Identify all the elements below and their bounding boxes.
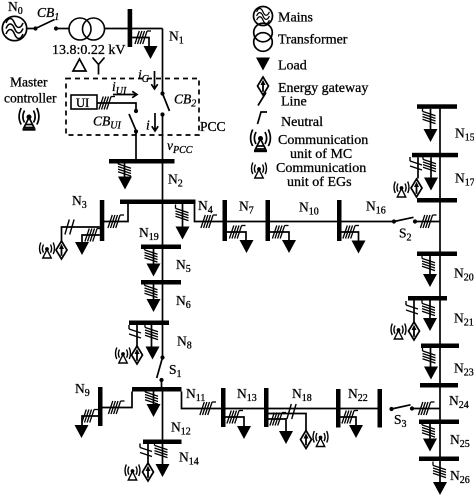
load branch wire under N19 bus	[153, 249, 155, 264]
load under PCC bus	[118, 177, 132, 190]
load branch wire at N1	[132, 38, 149, 47]
line/neutral marker	[342, 411, 358, 424]
wire	[342, 221, 395, 223]
load at N1	[144, 46, 158, 59]
load at N21	[423, 318, 437, 331]
svg-text:N4: N4	[198, 198, 213, 216]
legend label Communication unit of EGs	[276, 161, 366, 190]
marker on UI output	[99, 97, 115, 110]
bus above N17	[412, 153, 458, 158]
load at N18	[279, 431, 293, 444]
load branch wire at N9	[82, 416, 98, 425]
svg-text:Communication: Communication	[278, 133, 368, 148]
wire	[162, 115, 164, 160]
line/neutral marker on N26 line	[433, 462, 446, 478]
load branch wire at N4	[227, 232, 246, 240]
wire UI to CBUI	[97, 103, 136, 110]
load branch wire N15	[430, 109, 432, 129]
legend communication unit of EGs icon	[252, 163, 267, 179]
bus N18	[264, 388, 269, 427]
line/neutral marker	[229, 226, 245, 239]
line marker	[65, 220, 74, 235]
wire	[162, 285, 164, 321]
load at N25	[423, 439, 437, 452]
bus N10	[337, 200, 342, 241]
svg-text:N2: N2	[168, 172, 183, 190]
mains source at N0	[2, 16, 26, 40]
wire N2 bus to N3	[103, 204, 129, 222]
wire N11 bus to N9	[103, 392, 133, 408]
line marker	[410, 157, 422, 170]
line marker	[129, 325, 141, 338]
energy gateway at N21	[409, 322, 420, 340]
load branch wire at N3	[82, 235, 100, 242]
svg-text:N16: N16	[366, 199, 386, 217]
svg-text:N24: N24	[449, 393, 469, 411]
line/neutral marker	[418, 402, 434, 415]
arrow i	[152, 113, 158, 131]
line marker	[140, 444, 152, 457]
svg-text:N6: N6	[176, 293, 191, 311]
legend mains icon	[254, 7, 273, 26]
bus above N23	[421, 344, 459, 349]
load under N8 bus	[146, 347, 160, 360]
svg-text:S1: S1	[169, 362, 182, 380]
svg-text:unit of EGs: unit of EGs	[287, 175, 352, 190]
load at N23	[424, 367, 438, 380]
svg-text:13.8:0.22 kV: 13.8:0.22 kV	[52, 43, 126, 58]
load at N26 (clipped at bottom)	[433, 482, 447, 495]
svg-text:PCC: PCC	[200, 119, 226, 134]
bus PCC	[109, 159, 175, 164]
bus N7	[266, 200, 271, 241]
load at N22	[349, 425, 363, 438]
load branch wire at N17	[430, 157, 432, 177]
bus N19	[141, 245, 181, 250]
svg-text:Mains: Mains	[278, 11, 313, 26]
legend neutral icon	[258, 112, 268, 124]
wire right column feeder	[439, 107, 441, 483]
svg-text:i: i	[146, 118, 150, 133]
bus above N15	[417, 104, 457, 109]
wire	[27, 28, 36, 30]
svg-text:N14: N14	[179, 450, 199, 468]
load branch wire under N8 bus	[151, 325, 153, 347]
bus N22	[336, 389, 341, 428]
UI controller box	[71, 95, 97, 110]
load branch wire at N7	[270, 232, 289, 240]
load at N4	[240, 240, 254, 253]
svg-text:Line: Line	[281, 95, 307, 110]
svg-text:N8: N8	[177, 334, 192, 352]
svg-text:N25: N25	[450, 432, 470, 450]
svg-text:iG: iG	[138, 67, 149, 85]
svg-text:N11: N11	[186, 386, 205, 404]
line/neutral marker	[176, 205, 189, 221]
bus N3	[100, 200, 105, 241]
line/neutral marker	[85, 229, 101, 242]
bus N13	[221, 388, 226, 427]
load branch wire under N11 bus	[153, 392, 155, 405]
load branch wire at N22	[341, 417, 357, 425]
line/neutral marker	[108, 401, 124, 414]
EG branch wire at N17	[417, 157, 419, 178]
load branch wire N20	[429, 256, 431, 274]
line/neutral marker	[145, 282, 158, 298]
legend communication unit of MC icon	[251, 130, 271, 152]
communication unit of EG at N17	[394, 182, 409, 198]
wire	[227, 221, 266, 223]
wire	[341, 408, 378, 410]
dashed PCC boundary	[66, 79, 199, 136]
breaker CB2	[160, 91, 169, 116]
svg-text:Load: Load	[278, 59, 307, 74]
wire	[161, 380, 163, 387]
load branch wire under N2 bus	[182, 204, 184, 227]
arrow iUI	[113, 91, 137, 97]
svg-text:N22: N22	[348, 386, 368, 404]
wire	[226, 408, 265, 410]
svg-text:N3: N3	[72, 193, 87, 211]
svg-text:vPCC: vPCC	[167, 138, 193, 156]
load branch wire N25	[429, 424, 431, 439]
svg-text:CBUI: CBUI	[93, 114, 121, 132]
svg-text:N5: N5	[176, 257, 191, 275]
load branch wire N23	[430, 348, 432, 367]
switch S1	[157, 355, 165, 382]
load at N3	[75, 242, 89, 255]
legend line icon	[258, 93, 266, 106]
label Master controller	[4, 75, 57, 106]
load at N15	[424, 129, 438, 142]
line/neutral marker	[118, 160, 131, 176]
load at N20	[423, 274, 437, 287]
communication unit of EG at N21	[391, 324, 406, 340]
wire N2 bus to N4	[195, 204, 223, 222]
wye winding symbol	[93, 58, 105, 75]
load at N10	[352, 241, 366, 254]
line/neutral marker	[422, 300, 435, 316]
EG branch wire at N12	[147, 444, 149, 464]
communication unit of EG at N12	[125, 465, 140, 481]
line/neutral marker	[201, 215, 217, 228]
legend label Communication unit of MC	[278, 133, 368, 162]
bus above N21	[408, 296, 447, 301]
svg-text:S3: S3	[394, 412, 407, 430]
svg-text:unit of MC: unit of MC	[290, 147, 352, 162]
bus N8	[129, 321, 169, 326]
load under N5 bus	[147, 299, 161, 312]
bus above N26	[419, 457, 459, 462]
svg-text:CB1: CB1	[37, 5, 59, 23]
line/neutral marker	[423, 347, 436, 363]
svg-text:N10: N10	[299, 200, 319, 218]
EG branch wire at N3	[62, 227, 100, 242]
line marker	[287, 404, 296, 419]
line/neutral marker	[145, 324, 158, 340]
energy gateway at N8	[132, 346, 143, 364]
bus above N25	[419, 420, 459, 425]
load at N9	[75, 425, 89, 438]
bus N11	[132, 387, 182, 392]
line/neutral marker	[82, 410, 98, 423]
bus at feeder end before S3	[378, 389, 383, 428]
communication unit of EG at N18	[313, 431, 328, 447]
svg-text:N1: N1	[169, 29, 184, 47]
load branch wire at N13	[226, 417, 245, 426]
load at N17	[424, 178, 438, 191]
legend load icon	[256, 58, 270, 71]
wire	[135, 132, 137, 160]
communication unit of MC (master controller)	[19, 108, 39, 130]
load branch wire at N18	[269, 419, 287, 431]
wire	[162, 164, 164, 200]
wire	[105, 28, 163, 30]
energy gateway at N12	[143, 463, 154, 481]
load under N2 bus	[176, 227, 190, 240]
svg-text:N15: N15	[455, 126, 474, 144]
svg-text:CB2: CB2	[174, 92, 196, 110]
wire	[415, 221, 440, 223]
line/neutral marker	[420, 215, 436, 228]
load branch wire at N21	[429, 301, 431, 319]
line/neutral marker	[108, 215, 124, 228]
bus N2	[120, 200, 196, 205]
line/neutral marker	[270, 413, 286, 426]
svg-text:N0: N0	[8, 0, 23, 17]
load branch wire under N5 bus	[153, 285, 155, 300]
wire (feeder from N1 into PCC)	[162, 29, 164, 94]
line marker	[406, 301, 418, 314]
svg-text:UI: UI	[76, 96, 89, 110]
wire main feeder N11 to N12	[162, 392, 164, 440]
svg-text:Master: Master	[10, 75, 48, 90]
transformer T1	[69, 18, 105, 40]
bus N1	[128, 9, 133, 47]
svg-text:N26: N26	[450, 468, 470, 486]
wire	[270, 221, 337, 223]
wire main feeder N2 to N19 bus	[162, 204, 164, 245]
load at N13	[237, 426, 251, 439]
EG branch wire at N21	[413, 301, 415, 323]
load branch wire at N10	[342, 232, 359, 241]
energy gateway at N3	[56, 241, 67, 259]
line/neutral marker	[155, 442, 168, 458]
wire	[412, 408, 440, 410]
line/neutral marker	[343, 226, 359, 239]
svg-text:N23: N23	[454, 361, 474, 379]
line/neutral marker	[145, 388, 158, 404]
load branch wire under N12 bus (N14)	[162, 444, 164, 464]
svg-text:Communication: Communication	[276, 161, 366, 176]
svg-text:Neutral: Neutral	[281, 115, 323, 130]
arrow iG	[151, 71, 157, 89]
bus N5	[141, 280, 181, 285]
wire	[162, 325, 164, 358]
communication unit of EG at N8	[116, 348, 131, 364]
energy gateway at N18	[301, 431, 312, 449]
svg-text:N20: N20	[454, 266, 474, 284]
bus N12	[143, 440, 182, 445]
energy gateway at N17	[411, 179, 422, 197]
wire	[58, 28, 69, 30]
delta winding symbol	[73, 59, 86, 71]
load under N19 bus	[147, 264, 161, 277]
svg-text:N13: N13	[237, 386, 257, 404]
load branch wire under PCC bus	[124, 164, 126, 177]
legend transformer icon	[254, 23, 273, 51]
bus above S3 tap	[420, 383, 458, 388]
line/neutral marker	[135, 31, 151, 44]
communication unit of EG at N3	[40, 243, 55, 259]
wire N11 bus to N13	[182, 392, 222, 409]
load at N14	[156, 464, 170, 477]
load under N11 bus	[147, 404, 161, 417]
svg-text:N12: N12	[171, 420, 191, 438]
line/neutral marker	[227, 411, 243, 424]
svg-text:N17: N17	[455, 171, 474, 189]
svg-text:N9: N9	[75, 381, 90, 399]
breaker CB1	[33, 20, 58, 31]
legend energy gateway icon	[258, 77, 269, 95]
line/neutral marker	[423, 108, 436, 124]
switch S3	[389, 405, 414, 411]
switch S2	[392, 217, 417, 223]
line/neutral marker	[200, 402, 216, 415]
line/neutral marker	[422, 421, 435, 437]
EG branch wire at N18	[269, 414, 307, 432]
svg-text:N18: N18	[292, 386, 312, 404]
svg-text:Transformer: Transformer	[278, 33, 348, 48]
load at N7	[282, 240, 296, 253]
EG branch wire at N8	[136, 325, 138, 347]
wire	[162, 249, 164, 280]
line/neutral marker	[145, 246, 158, 262]
svg-text:controller: controller	[4, 91, 57, 106]
line/neutral marker	[423, 156, 436, 172]
bus N9	[98, 387, 103, 426]
line/neutral marker	[272, 226, 288, 239]
wire	[269, 408, 337, 410]
bus below N17	[417, 198, 457, 203]
breaker CBUI	[129, 109, 138, 134]
line/neutral marker	[422, 255, 435, 271]
bus N4	[223, 200, 228, 241]
svg-text:N7: N7	[239, 199, 254, 217]
svg-text:S2: S2	[399, 226, 412, 244]
bus above N20	[417, 252, 457, 257]
svg-text:N21: N21	[454, 311, 474, 329]
svg-text:N19: N19	[139, 225, 159, 243]
